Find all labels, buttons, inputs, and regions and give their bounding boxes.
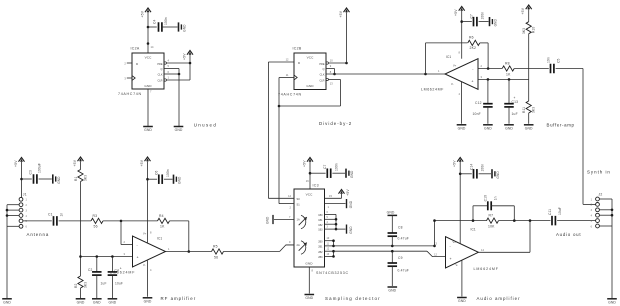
capacitor C14 100n	[469, 164, 491, 179]
svg-text:74AHC74N: 74AHC74N	[118, 92, 142, 96]
capacitor C10 1n feedback	[473, 195, 514, 221]
svg-text:1K: 1K	[160, 225, 165, 229]
capacitor C7b 100n	[323, 163, 345, 178]
svg-text:74AHC74N: 74AHC74N	[278, 93, 302, 97]
wire IC1C non-inverting input bias node	[478, 75, 529, 81]
svg-text:Audio out: Audio out	[556, 232, 581, 237]
IC3 common 1A to ground	[274, 215, 294, 220]
svg-text:3K3: 3K3	[532, 107, 536, 113]
svg-text:+: +	[471, 79, 473, 83]
svg-text:C6: C6	[155, 171, 159, 175]
node rail from IC2B D down to IC3 select	[267, 62, 269, 198]
ground above C8	[387, 211, 398, 216]
wire IC3 supply-side select to +5V	[325, 194, 342, 199]
svg-text:C14: C14	[469, 164, 473, 170]
svg-text:+5V: +5V	[454, 9, 458, 16]
svg-text:V-: V-	[143, 263, 146, 267]
svg-text:GND: GND	[144, 299, 152, 303]
capacitor C9 0.47uF	[388, 251, 409, 286]
svg-text:GND: GND	[349, 200, 353, 208]
svg-text:R11: R11	[522, 107, 526, 113]
resistor R1 3K3	[74, 170, 88, 182]
svg-text:SN74CB3253C: SN74CB3253C	[316, 271, 349, 275]
wire down to IC1A inverting input	[121, 221, 133, 245]
svg-text:+5V: +5V	[339, 10, 343, 17]
IC2B 74AHC74N flip-flop body	[293, 47, 327, 90]
svg-text:S1: S1	[297, 203, 301, 207]
svg-text:GND: GND	[266, 216, 270, 224]
svg-text:100n: 100n	[164, 17, 168, 25]
svg-text:C10: C10	[484, 195, 488, 201]
wire IC2A unused outputs to ground	[178, 69, 180, 127]
wire IC2A GND pin down	[148, 89, 152, 126]
svg-text:GND: GND	[350, 170, 354, 178]
ground for C14	[492, 169, 500, 178]
sideways ground at 1A	[266, 215, 274, 224]
bias rail down	[79, 182, 82, 277]
svg-text:1n: 1n	[494, 196, 498, 200]
power +5V for IC2B preset	[339, 8, 350, 63]
IC1A output wire	[166, 251, 212, 253]
wire IC2A pin4 to +5V	[166, 62, 190, 64]
svg-text:VCC: VCC	[145, 56, 152, 60]
svg-text:+5V: +5V	[183, 53, 187, 60]
svg-text:GND: GND	[3, 300, 11, 304]
svg-text:R1: R1	[74, 177, 78, 181]
mux switch graphic upper	[299, 215, 307, 229]
svg-text:S0: S0	[297, 197, 301, 201]
svg-text:GND: GND	[57, 176, 61, 184]
ground for C7	[490, 17, 498, 26]
svg-text:Sampling detector: Sampling detector	[325, 296, 381, 301]
link pin9 to clock line	[333, 69, 336, 76]
svg-text:2B0: 2B0	[318, 240, 323, 243]
svg-text:Unused: Unused	[194, 122, 218, 127]
wire IC2B pin10 to +5V	[328, 62, 347, 65]
svg-text:Divide-by-2: Divide-by-2	[319, 121, 352, 126]
wire IC1C inverting input	[478, 64, 502, 69]
svg-text:2B2: 2B2	[318, 251, 323, 254]
ground for C3	[53, 174, 61, 183]
capacitor C8 0.47uF	[388, 215, 409, 246]
ground C12	[483, 125, 493, 131]
svg-text:10uF: 10uF	[115, 282, 123, 286]
IC2A pin 3 stub	[124, 76, 132, 80]
svg-text:1A: 1A	[297, 218, 300, 222]
svg-text:+5V: +5V	[521, 7, 525, 14]
IC1A part value	[110, 270, 135, 274]
IC2B pin 9 stub	[326, 64, 335, 68]
svg-text:56: 56	[214, 255, 218, 259]
svg-text:C5: C5	[557, 59, 561, 63]
feedback wire up	[426, 43, 468, 74]
svg-text:100n: 100n	[481, 164, 485, 172]
ground C13	[504, 125, 514, 131]
wire R8 to C5	[514, 68, 549, 70]
IC2B CLR bubble pin 13	[326, 78, 333, 85]
svg-text:IC1: IC1	[157, 236, 162, 240]
sideways ground at enable	[347, 199, 353, 208]
sideways ground 1B group	[347, 225, 353, 234]
svg-text:GND: GND	[77, 300, 85, 304]
svg-text:J2: J2	[599, 193, 603, 197]
capacitor C2 1uF	[88, 257, 107, 299]
svg-text:GND: GND	[183, 24, 187, 32]
power +5V for IC1A	[140, 157, 151, 243]
svg-text:C9: C9	[398, 256, 403, 260]
wire C5 to synth input line	[556, 68, 583, 70]
resistor R5 56	[212, 245, 224, 260]
IC1C V- stub to ground	[461, 82, 463, 124]
svg-text:1B2: 1B2	[318, 224, 323, 227]
svg-text:PRE: PRE	[157, 63, 162, 66]
svg-text:C8: C8	[398, 226, 403, 230]
svg-text:1B0: 1B0	[318, 214, 323, 217]
svg-text:100n: 100n	[334, 163, 338, 171]
IC1D part value	[474, 267, 499, 271]
svg-text:CLR: CLR	[319, 79, 324, 82]
svg-text:100n: 100n	[481, 12, 485, 20]
svg-text:C7: C7	[469, 14, 473, 18]
wire to C6	[148, 178, 158, 180]
IC3 part value	[316, 271, 349, 275]
svg-text:GND: GND	[144, 128, 152, 132]
svg-text:R8: R8	[505, 62, 510, 66]
power +5V supply for IC2A	[141, 8, 152, 53]
connector J1 antenna	[19, 193, 27, 229]
svg-text:V+: V+	[453, 240, 457, 244]
svg-text:C7: C7	[323, 165, 327, 169]
svg-text:IC2A: IC2A	[131, 47, 140, 51]
Audio out caption	[556, 232, 581, 237]
svg-text:Buffer-amp: Buffer-amp	[547, 123, 575, 128]
svg-text:GND: GND	[505, 126, 513, 130]
svg-text:V-: V-	[456, 263, 459, 267]
svg-text:1B1: 1B1	[318, 219, 323, 222]
svg-text:Antenna: Antenna	[27, 232, 50, 237]
svg-text:GND: GND	[484, 126, 492, 130]
svg-text:3K3: 3K3	[84, 175, 88, 181]
wire select S0 from divider	[268, 194, 294, 199]
connector J2	[591, 193, 603, 229]
svg-text:Audio amplifier: Audio amplifier	[477, 296, 521, 301]
svg-text:56: 56	[94, 225, 98, 229]
svg-text:LM6624MF: LM6624MF	[421, 88, 444, 92]
IC2A CLR bubble pin 1	[164, 76, 170, 82]
IC3 1B group stubs tied	[325, 211, 338, 230]
power +5V for IC3	[303, 158, 314, 190]
svg-text:CLK: CLK	[158, 74, 163, 77]
ground for IC2A outputs	[174, 127, 184, 133]
svg-text:R4: R4	[159, 214, 164, 218]
ground below C9	[388, 287, 398, 293]
IC2B part value 74AHC74N	[278, 93, 302, 97]
IC2A PRE bubble pin 4	[164, 59, 170, 65]
svg-text:GND: GND	[387, 211, 395, 215]
svg-text:VCC: VCC	[306, 193, 313, 197]
svg-text:GND: GND	[305, 262, 313, 266]
capacitor C7 100n	[469, 12, 488, 27]
svg-text:Synth in: Synth in	[587, 170, 611, 175]
wire to C14	[460, 173, 472, 175]
IC2A part value 74AHC74N	[118, 92, 142, 96]
svg-text:GND: GND	[305, 296, 313, 300]
wire to C7	[462, 21, 472, 23]
svg-text:+: +	[137, 256, 139, 260]
svg-text:R6: R6	[469, 36, 474, 40]
ground J2	[607, 299, 617, 305]
wire J1 to C1	[23, 220, 52, 222]
capacitor C12 10nF bias decoupling	[473, 79, 493, 123]
svg-text:PRE: PRE	[319, 63, 324, 66]
feedback line to output node	[499, 219, 551, 222]
ground J1	[2, 299, 12, 305]
wire C11 to connector	[557, 220, 596, 222]
IC1D output wire	[478, 221, 530, 253]
svg-text:RF amplifier: RF amplifier	[161, 296, 197, 301]
svg-text:10n: 10n	[546, 57, 550, 63]
power +5V bias chain R1	[73, 157, 84, 170]
feedback wire Qbar to D	[279, 80, 341, 107]
detector output wire upper	[334, 245, 436, 248]
power +5V to antenna connector	[14, 158, 25, 198]
capacitor C11 10uF output coupling	[548, 207, 562, 225]
IC3 SN74CB3253 body	[294, 179, 325, 267]
svg-text:C1: C1	[48, 212, 53, 216]
power +5V for bias divider	[521, 5, 532, 22]
wire R5 to sampling detector	[224, 245, 295, 252]
svg-text:C4: C4	[153, 20, 157, 24]
RF amplifier caption	[161, 296, 197, 301]
svg-text:R2: R2	[74, 284, 78, 288]
IC2A pin 5 wire	[164, 64, 179, 68]
op-amp IC1A RF amplifier	[124, 230, 171, 272]
Antenna caption	[27, 232, 50, 237]
power +5V pull-up for IC2A preset/clear	[183, 51, 194, 81]
svg-text:GND: GND	[608, 300, 616, 304]
IC3 2B group stubs	[325, 237, 335, 257]
svg-text:1B3: 1B3	[318, 229, 323, 232]
svg-text:+5V: +5V	[453, 160, 457, 167]
wire bias to IC1A non-inverting input	[81, 255, 133, 258]
ground under IC2A	[143, 127, 153, 133]
op-amp IC1D audio amplifier	[434, 228, 484, 269]
svg-text:10uF: 10uF	[558, 207, 562, 215]
svg-text:IC1: IC1	[446, 55, 451, 59]
feedback wire down to inverting input	[487, 43, 490, 70]
wire C1 to R3	[59, 220, 91, 222]
svg-text:+5V: +5V	[140, 159, 144, 166]
Audio amplifier caption	[477, 296, 521, 301]
wire IC2B D pin to left rail	[268, 58, 294, 63]
svg-text:C12: C12	[475, 101, 482, 105]
svg-text:+5V: +5V	[73, 159, 77, 166]
svg-text:3K3: 3K3	[522, 28, 526, 34]
Synth in caption	[587, 170, 611, 175]
IC2A pin 2 stub	[124, 61, 132, 65]
ground IC1A	[143, 298, 153, 304]
wire IC2A pin1 to +5V	[166, 79, 190, 81]
svg-text:GND: GND	[349, 226, 353, 234]
IC1D V- to ground	[461, 260, 463, 296]
svg-text:GND: GND	[144, 84, 152, 88]
resistor R4 1K	[158, 214, 170, 229]
J2 ground bus	[599, 199, 613, 298]
svg-text:+5V: +5V	[303, 160, 307, 167]
ground IC1C	[457, 125, 467, 131]
capacitor C5 10n coupling	[546, 57, 560, 73]
svg-text:100uF: 100uF	[38, 163, 42, 173]
svg-text:CLR: CLR	[157, 79, 162, 82]
feedback wire to R4	[121, 220, 158, 222]
svg-text:GND: GND	[178, 176, 182, 184]
svg-text:LM6624MF: LM6624MF	[474, 267, 499, 271]
wire 1B group to ground	[336, 228, 346, 230]
svg-text:GND: GND	[458, 126, 466, 130]
svg-text:2A: 2A	[297, 243, 300, 247]
svg-text:2B1: 2B1	[318, 246, 323, 249]
svg-text:C3: C3	[29, 170, 33, 174]
svg-text:GND: GND	[108, 300, 116, 304]
svg-text:VCC: VCC	[307, 56, 314, 60]
IC3 GND pin wire	[309, 267, 313, 294]
svg-text:Q: Q	[323, 68, 325, 71]
svg-text:LM6624MF: LM6624MF	[110, 270, 135, 274]
feedback wire down to output	[170, 221, 191, 253]
svg-text:+5V: +5V	[141, 10, 145, 17]
resistor R11 3K3 lower bias	[522, 79, 536, 123]
Buffer-amp caption	[547, 123, 575, 128]
svg-text:GND: GND	[496, 171, 500, 179]
capacitor C4 100n	[153, 17, 178, 32]
op-amp IC1C buffer	[438, 51, 478, 97]
node rail from IC2B CLK down to IC3 select	[278, 78, 281, 204]
svg-text:10nF: 10nF	[473, 112, 481, 116]
wire to C3	[22, 178, 32, 180]
wire IC3 enable to ground	[325, 204, 346, 209]
power +5V for IC1D	[453, 158, 464, 244]
resistor R8 1K	[502, 62, 514, 77]
wire to C7b	[310, 172, 326, 174]
mux switch graphic lower	[299, 241, 307, 255]
svg-text:IC3: IC3	[313, 184, 319, 188]
feedback line with R7	[433, 219, 486, 222]
svg-text:+5V: +5V	[14, 160, 18, 167]
capacitor C1 1n	[48, 212, 64, 225]
svg-text:IC2B: IC2B	[293, 47, 302, 51]
Unused caption	[194, 122, 218, 127]
IC2B PRE bubble pin 10	[326, 59, 333, 65]
ground IC3	[305, 295, 315, 301]
svg-text:1n: 1n	[60, 213, 64, 217]
ground for C7b	[346, 169, 354, 178]
power +5V right of IC3	[339, 189, 351, 199]
resistor R10 3K3	[522, 22, 536, 34]
svg-text:GND: GND	[93, 300, 101, 304]
svg-text:+: +	[514, 96, 516, 100]
resistor R7 10K	[487, 213, 499, 228]
svg-text:R3: R3	[93, 214, 98, 218]
ground for C6	[174, 175, 182, 184]
detector output wire lower	[334, 250, 446, 257]
ground for C4	[179, 22, 187, 31]
synth input vertical line	[583, 69, 596, 205]
svg-text:2K2: 2K2	[470, 46, 477, 50]
IC2A pin 6 wire	[164, 70, 180, 75]
svg-text:0.47uF: 0.47uF	[398, 236, 409, 240]
svg-text:GND: GND	[306, 84, 314, 88]
svg-text:10K: 10K	[488, 225, 495, 229]
svg-text:0.47uF: 0.47uF	[398, 268, 409, 272]
svg-text:C11: C11	[548, 209, 552, 215]
capacitor C4b 10uF	[108, 257, 123, 299]
resistor R3 56	[91, 214, 103, 229]
wire VCC to C4	[148, 26, 157, 28]
svg-text:C2: C2	[88, 268, 93, 272]
ground C4b	[108, 299, 118, 305]
svg-text:R10: R10	[532, 27, 536, 33]
svg-text:1uF: 1uF	[101, 282, 107, 286]
resistor R2 3K3	[74, 276, 88, 298]
capacitor C3 100uF	[29, 163, 52, 184]
feedback vertical to R7 line	[434, 221, 436, 246]
svg-text:GND: GND	[494, 18, 498, 26]
svg-text:Q: Q	[161, 68, 163, 71]
svg-text:2B3: 2B3	[318, 256, 323, 259]
ground IC1D	[457, 298, 467, 304]
ground R11	[524, 125, 534, 131]
ground C2	[92, 299, 102, 305]
junction on IC2A VCC feed	[147, 26, 150, 45]
capacitor C6 100n	[155, 169, 173, 184]
svg-text:1uF: 1uF	[512, 112, 518, 116]
power +5V for IC1C	[454, 7, 465, 59]
Divide-by-2 caption	[319, 121, 352, 126]
resistor R6 2K2	[468, 36, 488, 50]
svg-text:+: +	[450, 257, 452, 261]
IC1A V- to ground	[147, 261, 149, 297]
J1 ground bus	[6, 205, 19, 298]
svg-text:GND: GND	[388, 289, 396, 293]
svg-text:V+: V+	[453, 64, 457, 68]
svg-text:CLK: CLK	[320, 74, 325, 77]
wire R10 to bias node	[528, 34, 530, 80]
IC2A 74AHC74N flip-flop body	[131, 45, 165, 89]
svg-text:+5V: +5V	[346, 189, 350, 196]
IC1C part value	[421, 88, 444, 92]
Sampling detector caption	[325, 296, 381, 301]
wire IC2B CLK pin	[279, 73, 294, 78]
svg-text:3K3: 3K3	[84, 282, 88, 288]
svg-text:IC1: IC1	[471, 228, 476, 232]
feedback node on buffer output	[424, 73, 427, 76]
svg-text:C13: C13	[512, 100, 519, 104]
capacitor C13 1uF bias decoupling	[504, 79, 518, 123]
wire select S1 from divider	[279, 204, 294, 210]
svg-text:R7: R7	[489, 213, 494, 217]
svg-text:V-: V-	[451, 82, 454, 86]
ground R2	[76, 299, 86, 305]
wire common 2A from R5	[286, 240, 294, 245]
wire R3 to inverting node	[103, 220, 122, 223]
wire IC2B clock from buffer amp	[326, 70, 445, 74]
svg-text:GND: GND	[175, 128, 183, 132]
svg-text:R5: R5	[213, 245, 218, 249]
svg-text:GND: GND	[458, 299, 466, 303]
svg-text:100n: 100n	[166, 169, 170, 177]
svg-text:GND: GND	[525, 126, 533, 130]
svg-text:J1: J1	[23, 193, 27, 197]
